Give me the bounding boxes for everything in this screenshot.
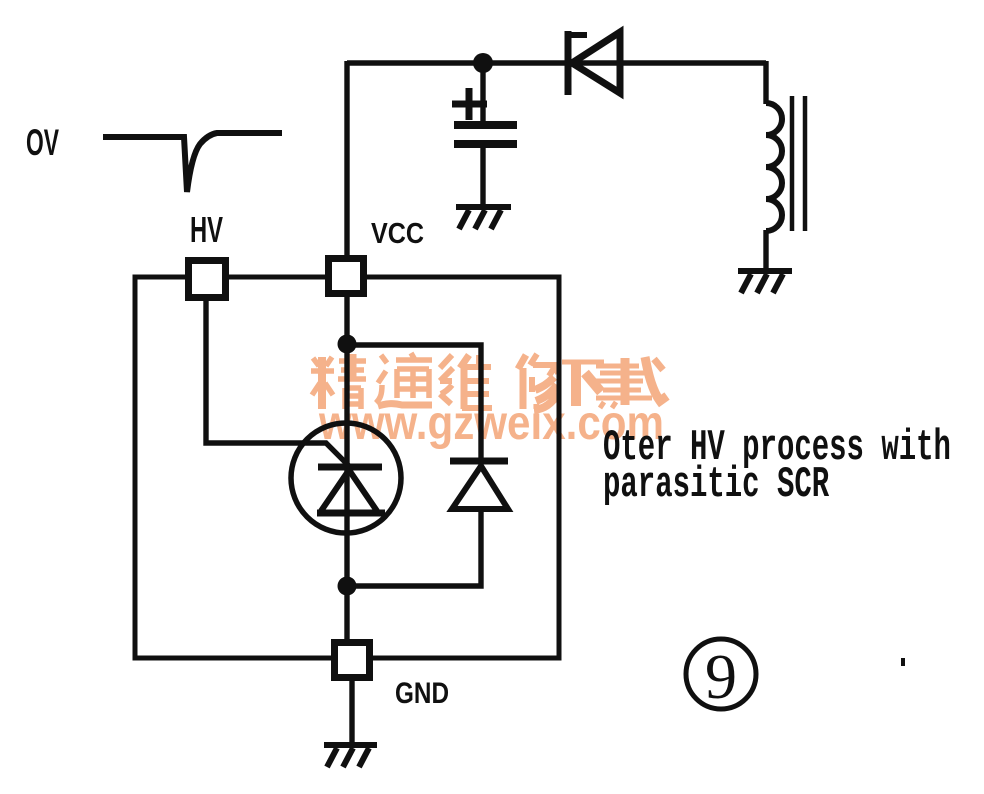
- stray mark: [901, 658, 905, 666]
- svg-text:VCC: VCC: [371, 218, 424, 250]
- thyristor Q1 circle: [291, 423, 401, 533]
- wire VCC vertical through IC: [344, 297, 349, 640]
- terminal VCC box: [329, 259, 364, 294]
- wire down to transformer: [763, 61, 768, 104]
- wire vertical down to VCC terminal: [344, 61, 349, 256]
- IC boundary box: [135, 277, 559, 658]
- figure number 9 circle: [686, 639, 756, 709]
- ground below transformer: [738, 271, 792, 293]
- waveform pulse: [103, 133, 282, 192]
- svg-text:9: 9: [705, 641, 737, 712]
- svg-text:HV: HV: [190, 209, 223, 250]
- diode D2 triangle: [452, 466, 508, 509]
- thyristor Q1 anode bar: [317, 510, 385, 517]
- ground below GND: [324, 745, 377, 767]
- svg-text:OV: OV: [26, 122, 59, 163]
- transformer T1 core: [792, 96, 805, 231]
- wire GND to ground: [349, 681, 354, 743]
- node junction dot upper: [338, 335, 357, 354]
- terminal HV box: [189, 261, 226, 298]
- capacitor C1 plates: [454, 125, 517, 144]
- capacitor C1 lead: [480, 63, 485, 122]
- svg-text:GND: GND: [395, 677, 449, 710]
- thyristor Q1 cathode bar: [318, 464, 382, 471]
- watermark text 精通维修下载: [311, 353, 667, 410]
- diode D1: [568, 31, 620, 95]
- capacitor C1 lower lead: [480, 148, 485, 205]
- node junction dot top: [473, 53, 493, 73]
- diode D2 cathode bar: [450, 458, 508, 465]
- wire transformer to ground: [763, 230, 768, 269]
- node junction dot lower: [338, 577, 357, 596]
- transformer T1 primary winding: [766, 103, 782, 231]
- capacitor C1 plus sign: [452, 88, 487, 120]
- wire HV gate path: [206, 299, 352, 469]
- wire branch to diode D2: [347, 345, 481, 462]
- wire top horizontal VCC to diode to transformer: [347, 60, 766, 65]
- wire D2 to lower node: [347, 509, 481, 586]
- ground below capacitor: [456, 207, 511, 229]
- terminal GND box: [335, 643, 370, 678]
- thyristor Q1 triangle: [321, 470, 377, 511]
- svg-text:parasitic SCR: parasitic SCR: [603, 461, 830, 510]
